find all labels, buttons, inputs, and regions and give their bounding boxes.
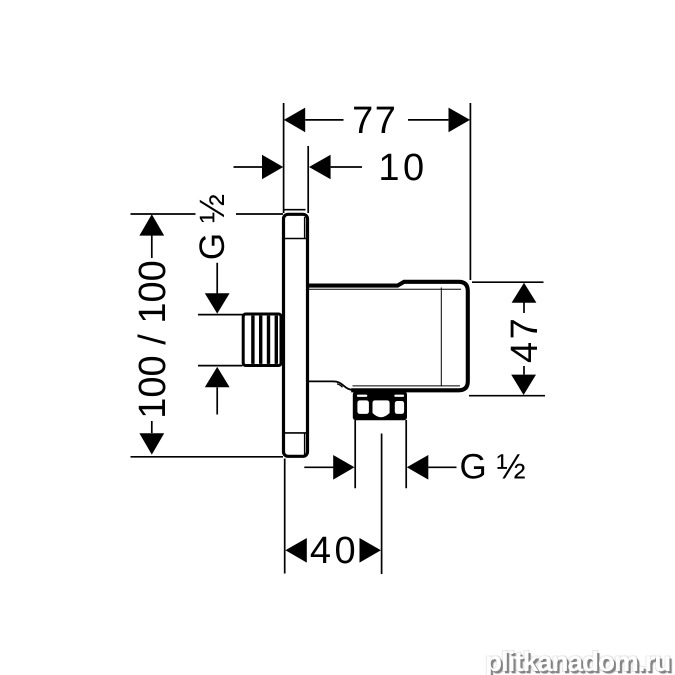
- svg-text:G ½: G ½: [460, 448, 526, 487]
- svg-text:G ½: G ½: [193, 194, 232, 260]
- wire: stub top extension line: [198, 314, 243, 316]
- nut facet left: [357, 400, 369, 414]
- arrowhead 47 top (points up): [512, 283, 537, 303]
- threaded wall stub G1/2: [243, 314, 281, 366]
- body inner bottom line: [353, 385, 461, 387]
- plate cap line bottom: [285, 432, 306, 434]
- body step accent tick: [337, 384, 343, 387]
- wire: plate top face line: [284, 209, 306, 211]
- arrowhead 47 bottom (points down): [511, 375, 536, 395]
- nut top chamfer slit right: [394, 395, 404, 397]
- body of wall outlet: [309, 282, 468, 391]
- wire: dim line 100/100 upper segment: [151, 236, 153, 259]
- arrowhead 100/100 top: [139, 214, 164, 235]
- wall plate (escutcheon, side view): [284, 214, 308, 456]
- arrowhead 100/100 bottom: [139, 433, 164, 454]
- wire: dim line 77 right segment: [408, 119, 448, 121]
- arrowhead G1/2 outlet right (points left): [407, 455, 429, 480]
- watermark plitkanadom.ru: [485, 646, 670, 675]
- wire: dim line 100/100 lower segment: [151, 421, 153, 433]
- arrowhead dim 10 outer (points right at wall line): [262, 155, 283, 180]
- wire: outlet centerline: [381, 434, 383, 575]
- svg-text:100 / 100: 100 / 100: [132, 260, 174, 418]
- wire: stub bottom extension line: [198, 365, 243, 367]
- arrowhead dim 40 right (points right): [360, 538, 381, 563]
- arrowhead dim 40 left (points left): [285, 538, 306, 563]
- wire: dim line 47 upper segment: [523, 302, 525, 313]
- wire: dim line 77 left segment: [305, 119, 343, 121]
- arrowhead G1/2 stub bottom (points up): [205, 367, 230, 387]
- svg-text:40: 40: [310, 530, 359, 572]
- wire: top extension line 100/100 right part: [236, 213, 283, 215]
- arrowhead dim 77 right: [449, 108, 471, 133]
- wire: 40 left extension line: [284, 459, 286, 574]
- dimension texts: [132, 100, 546, 572]
- plate cap line top: [285, 238, 306, 240]
- wire: bottom extension line 100/100: [131, 456, 284, 458]
- thread lines: [253, 316, 276, 364]
- wire: extension line wall face (left, top run): [283, 103, 285, 213]
- body inner front cap line: [440, 288, 442, 387]
- nut facet right: [395, 401, 404, 414]
- svg-text:10: 10: [378, 147, 427, 189]
- body bottom step to plate: [309, 381, 352, 389]
- arrowhead dim 10 inner (points left): [309, 155, 331, 180]
- nut top chamfer slit left: [357, 395, 367, 397]
- svg-text:77: 77: [352, 100, 397, 142]
- wire: outlet pipe right extension: [405, 420, 407, 488]
- plate rim line top: [304, 217, 306, 239]
- wire: extension line plate front for dim 10: [307, 146, 309, 213]
- plate rim line bottom: [304, 433, 306, 455]
- wire: G1/2 bottom left leader: [304, 466, 333, 468]
- body inner top line: [309, 288, 462, 290]
- wire: dim line 47 lower segment: [523, 366, 525, 375]
- arrowhead G1/2 outlet left (points right): [333, 455, 354, 480]
- wire: G1/2 top arrow stem: [216, 263, 218, 294]
- wire: top extension line 100/100 left part: [131, 213, 196, 215]
- wire: 47 top extension line: [472, 281, 544, 283]
- wire: G1/2 bottom right leader: [428, 466, 456, 468]
- wire: outlet pipe left extension: [354, 420, 356, 488]
- wire: 47 bottom extension line: [469, 395, 545, 397]
- nut facet center: [373, 400, 390, 417]
- arrowhead dim 77 left: [284, 108, 305, 133]
- body outer outline: [309, 282, 468, 391]
- arrowhead G1/2 stub top (points down): [205, 293, 230, 313]
- wire: extension line body front (right): [469, 103, 471, 280]
- wire: dim 10 leader to text: [331, 166, 362, 168]
- svg-text:47: 47: [504, 316, 546, 363]
- wire: G1/2 bottom arrow stem: [216, 387, 218, 414]
- hose connection nut: [353, 391, 407, 420]
- wire: dim 10 tail line: [234, 166, 263, 168]
